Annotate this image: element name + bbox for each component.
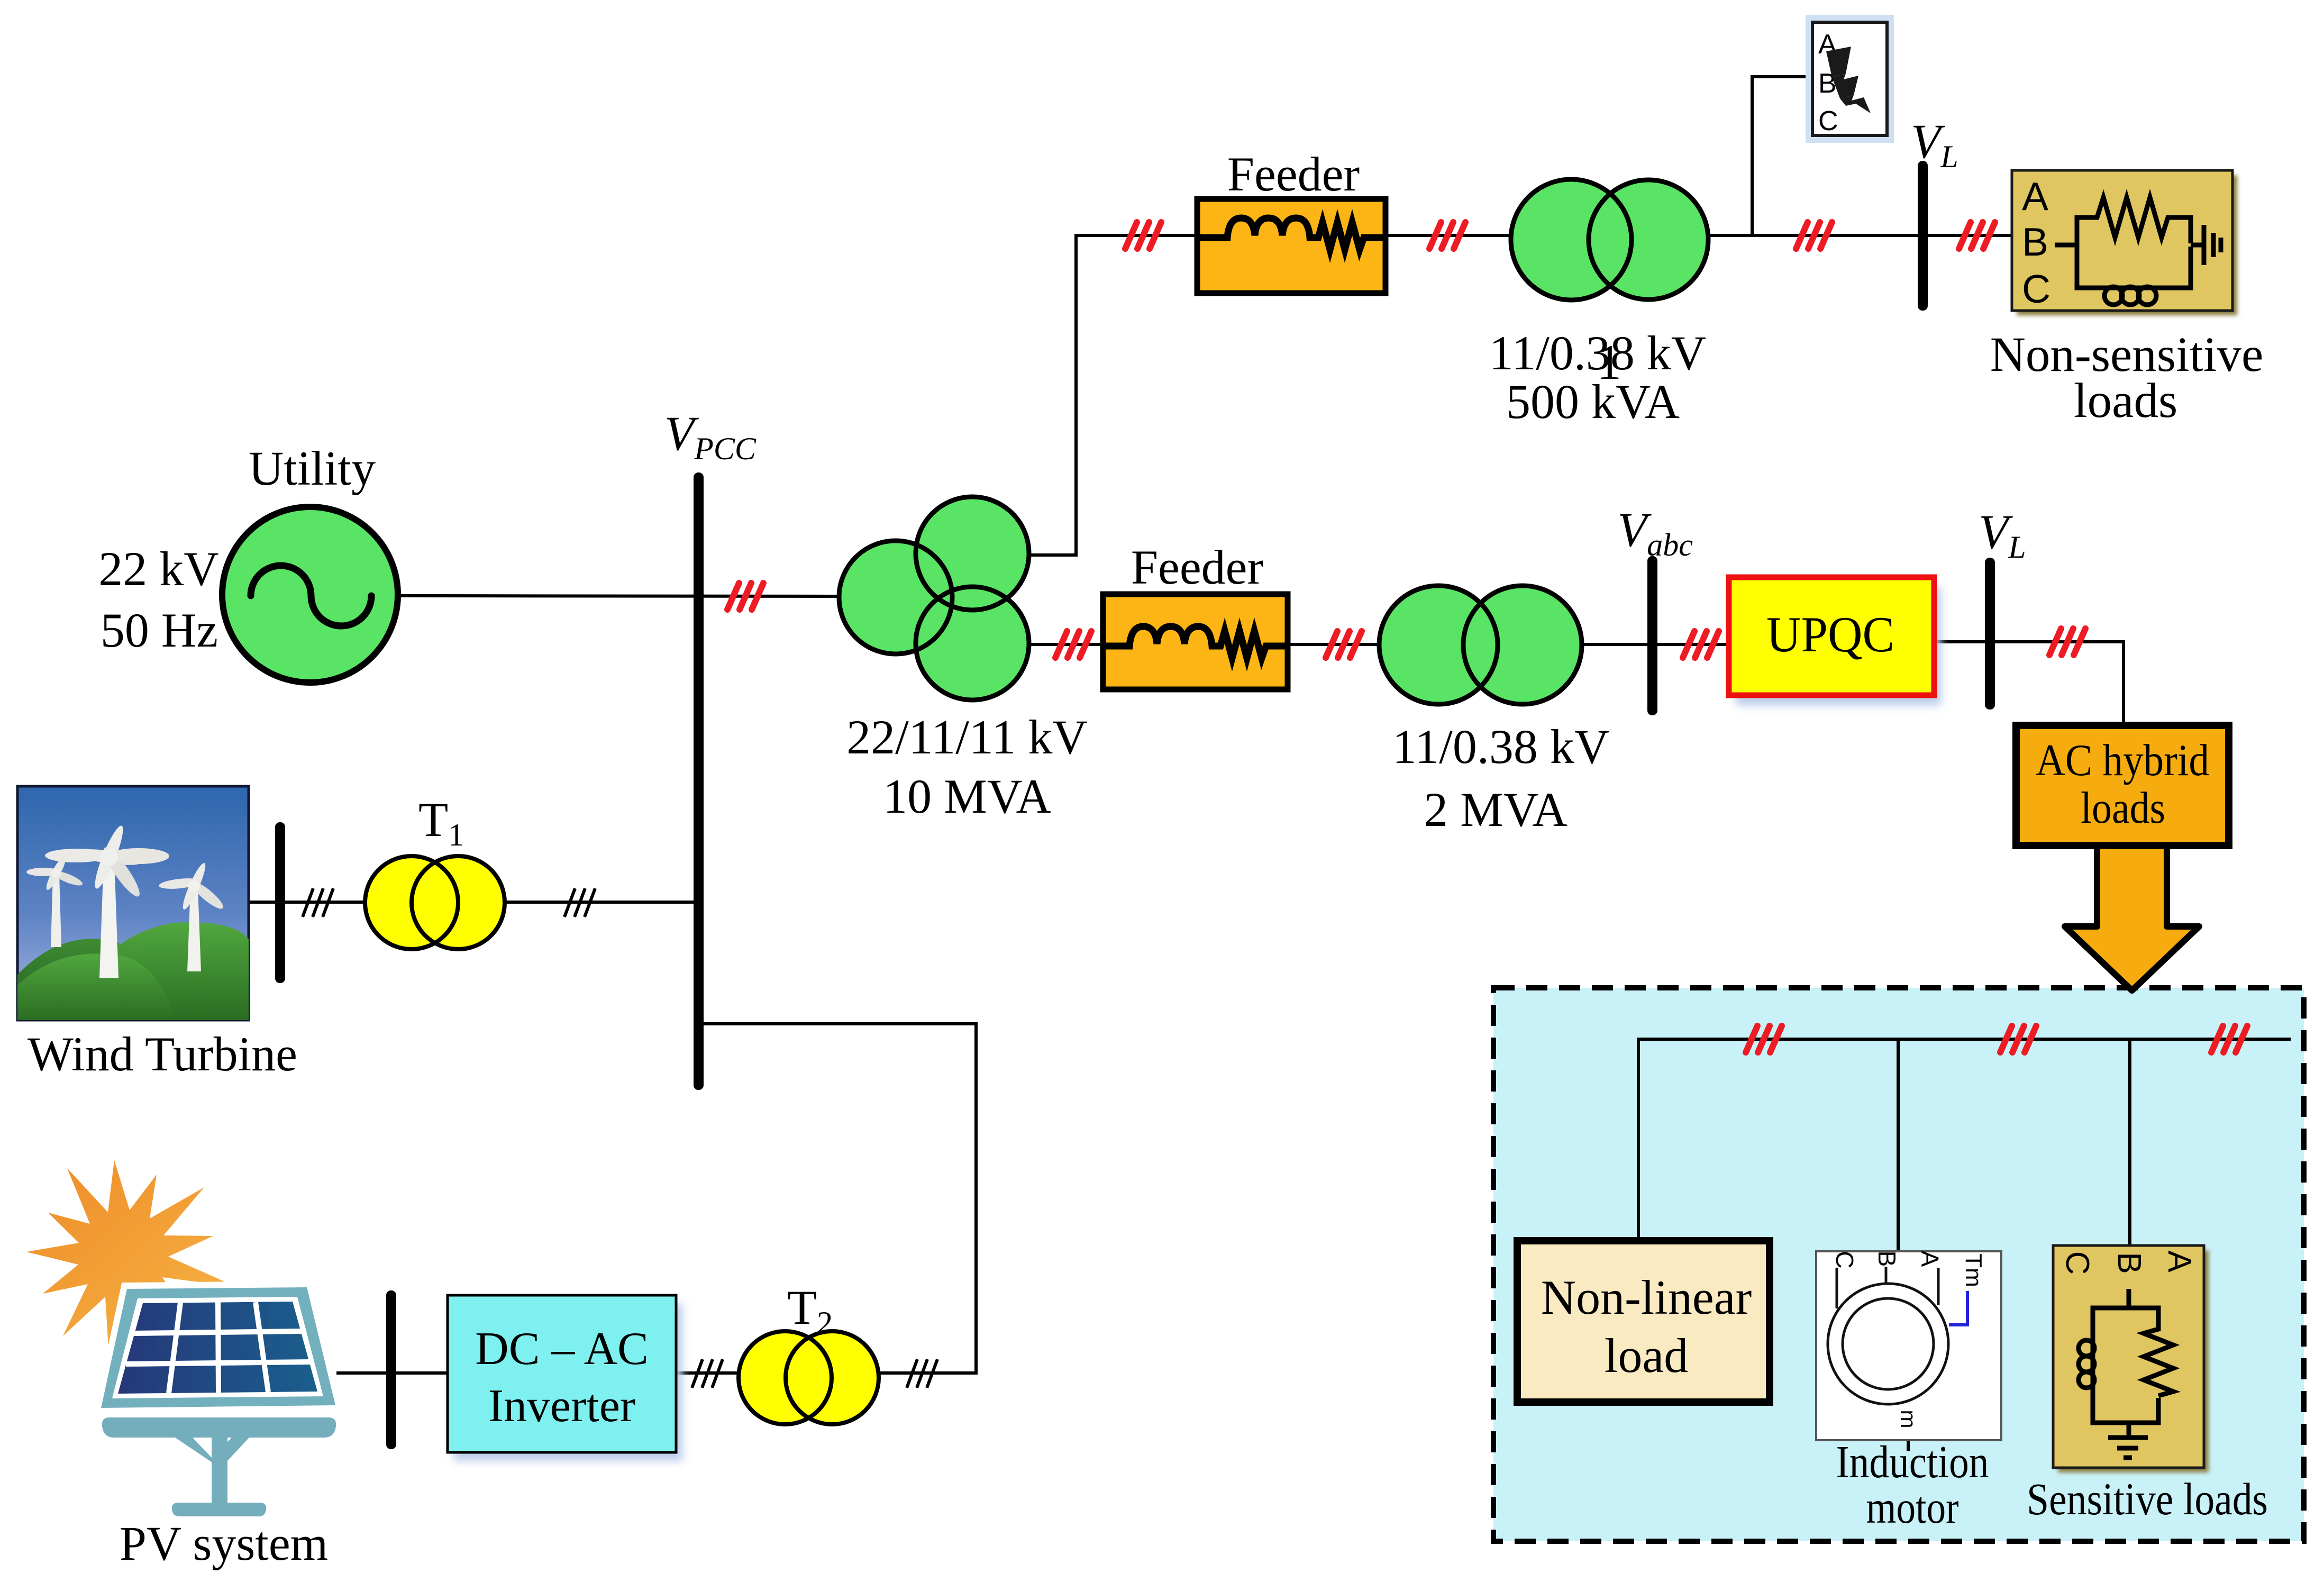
svg-text:loads: loads bbox=[2074, 374, 2177, 428]
svg-text:2 MVA: 2 MVA bbox=[1424, 783, 1567, 837]
svg-text:A: A bbox=[1916, 1251, 1944, 1267]
svg-text:Non-linear: Non-linear bbox=[1541, 1270, 1752, 1324]
svg-text:Tm: Tm bbox=[1961, 1253, 1986, 1287]
svg-text:UPQC: UPQC bbox=[1766, 606, 1894, 662]
svg-text:22 kV: 22 kV bbox=[98, 542, 218, 596]
svg-text:C: C bbox=[1818, 106, 1838, 137]
svg-text:C: C bbox=[2022, 267, 2050, 311]
svg-text:Sensitive loads: Sensitive loads bbox=[2027, 1474, 2268, 1524]
svg-text:C: C bbox=[1831, 1251, 1858, 1268]
svg-text:DC – AC: DC – AC bbox=[475, 1323, 649, 1375]
svg-text:1: 1 bbox=[1597, 335, 1621, 390]
svg-text:Feeder: Feeder bbox=[1131, 540, 1263, 594]
svg-text:load: load bbox=[1605, 1329, 1688, 1383]
svg-text:AC hybrid: AC hybrid bbox=[2036, 735, 2209, 785]
svg-text:loads: loads bbox=[2081, 783, 2165, 833]
svg-text:C: C bbox=[2059, 1251, 2095, 1275]
svg-text:500 kVA: 500 kVA bbox=[1506, 375, 1680, 429]
svg-text:10 MVA: 10 MVA bbox=[883, 769, 1051, 823]
svg-text:B: B bbox=[2111, 1252, 2147, 1274]
svg-text:50 Hz: 50 Hz bbox=[101, 603, 218, 657]
svg-text:Induction: Induction bbox=[1836, 1436, 1989, 1487]
svg-text:A: A bbox=[2161, 1250, 2198, 1272]
svg-text:Utility: Utility bbox=[249, 441, 376, 495]
svg-text:A: A bbox=[2022, 174, 2048, 219]
svg-text:B: B bbox=[2022, 220, 2048, 264]
svg-text:22/11/11 kV: 22/11/11 kV bbox=[846, 710, 1088, 764]
svg-text:m: m bbox=[1896, 1410, 1921, 1429]
svg-text:11/0.38 kV: 11/0.38 kV bbox=[1392, 720, 1610, 774]
svg-text:Feeder: Feeder bbox=[1227, 147, 1360, 201]
svg-text:Inverter: Inverter bbox=[488, 1380, 635, 1432]
svg-text:PV system: PV system bbox=[120, 1516, 329, 1570]
svg-text:Wind Turbine: Wind Turbine bbox=[28, 1027, 297, 1081]
svg-text:B: B bbox=[1873, 1251, 1901, 1267]
svg-text:motor: motor bbox=[1866, 1481, 1959, 1533]
